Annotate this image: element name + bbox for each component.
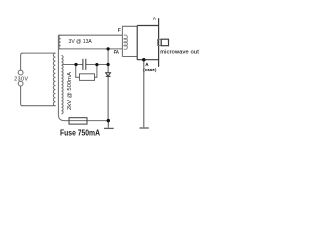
wire primary top [22,52,56,54]
bottom wire HV return [64,120,108,122]
magnetron antenna vertical line [158,18,160,67]
wire primary bottom [22,105,56,107]
filament winding box left scallops [59,35,61,49]
junction dot ground 1 [107,119,110,122]
transformer HV secondary winding [62,56,64,114]
diode D1 bottom lead [107,77,109,121]
junction dot magnetron case A [142,58,145,61]
diode D1 top lead [107,65,109,73]
AC source bottom lead [21,86,23,106]
AC source top lead [21,53,23,70]
transformer core line [58,35,64,120]
transformer primary winding [53,53,55,106]
ground 2 wire from magnetron case [143,60,145,128]
wire node B up to filament bottom edge [107,49,109,65]
wire HV secondary to capacitor node [62,64,83,66]
wire capacitor to node B [86,64,108,66]
junction dot filament bottom edge [107,47,110,50]
svg-text:3V @ 13A: 3V @ 13A [69,39,93,45]
fuse F1 body [69,118,87,124]
capacitor C1 plate right [85,59,87,70]
magnetron filament coil [124,35,127,49]
wire FA to magnetron [122,56,136,58]
filament winding box top edge (F wire) [58,34,122,36]
svg-text:microwave out: microwave out [160,49,199,55]
svg-text:A: A [153,16,157,22]
AC source terminal circle bottom [18,81,23,86]
ground 1 bar [104,127,114,129]
antenna stub cell left [158,39,162,45]
ground 1 stub [107,121,109,128]
svg-text:230V: 230V [14,77,28,83]
junction dot node HV-cap right [95,63,98,66]
resistor R1 body [80,74,95,81]
filament winding box bottom edge [58,48,122,50]
diode D1 triangle [106,73,111,76]
svg-text:2kV @ 500mA: 2kV @ 500mA [67,71,73,110]
antenna stub cell right (waveguide out) [161,39,168,46]
capacitor C1 plate left [82,59,84,70]
svg-text:(case): (case) [143,67,157,72]
filament F/FA vertical jog line [122,26,137,56]
diode D1 cathode bar [106,75,111,77]
junction dot node HV-cap left [74,63,77,66]
resistor right lead [95,65,97,78]
ground 2 bar [140,127,149,129]
magnetron U1 body box [137,26,158,60]
junction dot node B (diode top) [107,63,110,66]
svg-text:Fuse 750mA: Fuse 750mA [60,127,100,137]
resistor left lead [76,65,80,78]
svg-text:F: F [118,28,121,33]
AC source terminal circle top [18,70,23,75]
svg-text:FA: FA [114,50,119,55]
